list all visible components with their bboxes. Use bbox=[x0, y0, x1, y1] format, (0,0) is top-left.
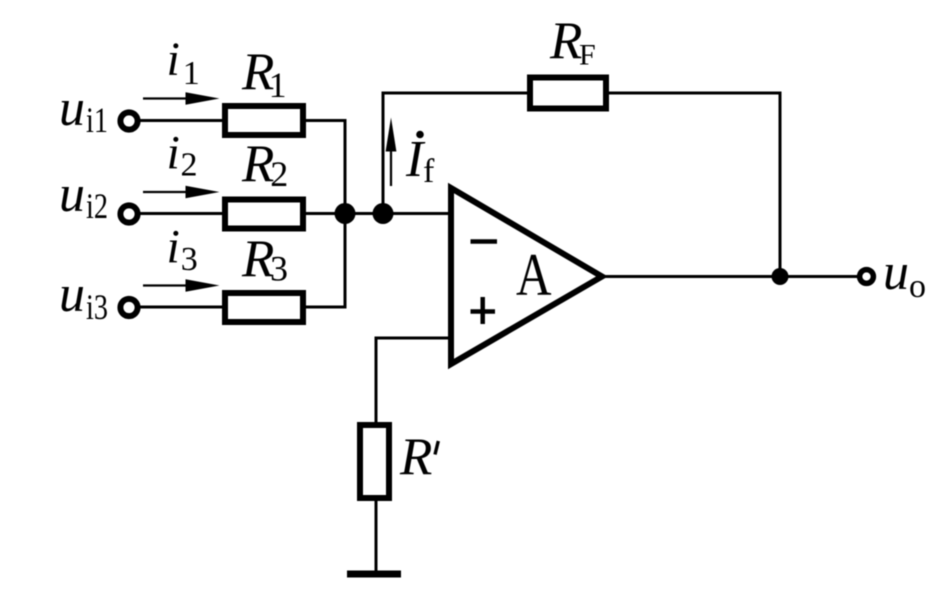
svg-text:u: u bbox=[59, 80, 85, 137]
svg-text:i1: i1 bbox=[86, 100, 108, 140]
svg-text:u: u bbox=[883, 244, 909, 301]
svg-text:3: 3 bbox=[181, 241, 198, 278]
svg-text:o: o bbox=[909, 268, 926, 305]
svg-text:F: F bbox=[579, 39, 596, 72]
svg-text:u: u bbox=[59, 266, 85, 323]
svg-text:i: i bbox=[167, 33, 180, 86]
svg-text:R: R bbox=[549, 12, 582, 70]
svg-text:i: i bbox=[167, 221, 180, 274]
svg-text:1: 1 bbox=[269, 65, 287, 105]
svg-text:R: R bbox=[399, 428, 432, 486]
svg-text:i2: i2 bbox=[86, 186, 108, 226]
svg-text:i: i bbox=[167, 127, 180, 180]
svg-text:u: u bbox=[59, 166, 85, 223]
svg-text:3: 3 bbox=[270, 249, 288, 289]
svg-text:f: f bbox=[423, 153, 435, 190]
svg-text:1: 1 bbox=[183, 55, 200, 92]
svg-text:2: 2 bbox=[270, 154, 288, 194]
svg-text:i3: i3 bbox=[86, 287, 108, 327]
svg-text:2: 2 bbox=[181, 147, 198, 184]
svg-text:A: A bbox=[516, 241, 552, 308]
